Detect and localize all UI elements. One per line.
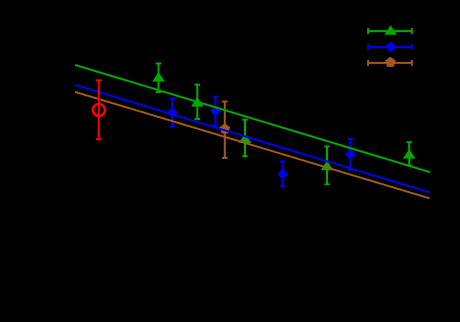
- data point B2 errorbar: [210, 97, 221, 126]
- data point BR1 errorbar: [219, 102, 230, 158]
- green errorbar series: [152, 64, 415, 185]
- red data point R1 errorbar with open circle: [93, 80, 105, 139]
- blue fit line: [75, 85, 430, 193]
- data point B4 errorbar: [345, 139, 356, 170]
- data point G3 errorbar: [239, 120, 252, 157]
- legend entry: brown series: [368, 57, 412, 67]
- data point G5 errorbar: [403, 142, 416, 165]
- green fit line: [75, 65, 430, 172]
- data point G1 errorbar: [152, 64, 165, 93]
- legend entry: green series: [368, 25, 412, 35]
- data point G2 errorbar: [191, 85, 204, 119]
- blue errorbar series: [167, 97, 356, 187]
- data point G4 errorbar: [321, 147, 334, 185]
- legend entry: blue series: [368, 41, 412, 52]
- data point B3 errorbar: [277, 162, 288, 187]
- brown fit line: [75, 92, 430, 198]
- data point B1 errorbar: [167, 99, 178, 127]
- brown errorbar series: [219, 102, 230, 158]
